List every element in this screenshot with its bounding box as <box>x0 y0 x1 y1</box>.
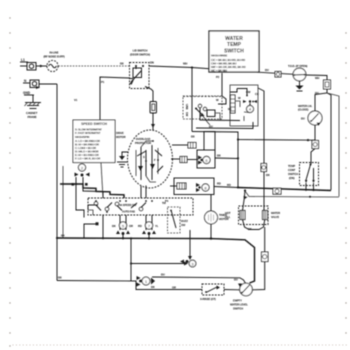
wires connector to rails <box>315 89 339 197</box>
wire contact1 to empty switch <box>152 277 246 283</box>
wires timer box to contact 7 <box>138 215 159 230</box>
svg-text:(RF NOISE SUPP): (RF NOISE SUPP) <box>43 55 64 59</box>
lid switch <box>129 49 150 89</box>
svg-text:GND: GND <box>23 91 31 95</box>
svg-text:IN-LINE: IN-LINE <box>49 51 58 55</box>
wire noise suppressor to lid switch <box>58 65 129 67</box>
water temp switch legend box <box>209 31 259 72</box>
node lid/WH junction <box>191 66 193 68</box>
terminal N <box>23 79 40 89</box>
svg-text:BK: BK <box>266 173 270 177</box>
svg-text:BK: BK <box>120 62 124 66</box>
svg-text:WH: WH <box>183 62 187 66</box>
svg-text:BU: BU <box>301 117 305 121</box>
svg-text:EMPTY: EMPTY <box>233 299 242 303</box>
svg-text:DRIVE: DRIVE <box>116 131 124 135</box>
connector on bus y190 <box>273 188 281 194</box>
wire valve right coil down <box>264 227 266 252</box>
svg-text:P2: P2 <box>216 75 220 79</box>
node 7 contact <box>142 222 156 240</box>
svg-text:BK: BK <box>112 224 116 228</box>
valve funnel bottom <box>243 220 265 232</box>
svg-text:BK: BK <box>151 285 155 289</box>
cabinet frame ground symbol <box>25 103 42 120</box>
connector on water level line <box>312 141 319 149</box>
perforation dots left column <box>9 17 10 346</box>
water temp switch contact assembly <box>183 73 259 129</box>
svg-text:WATER LEVEL: WATER LEVEL <box>230 303 248 307</box>
svg-text:TEMP: TEMP <box>227 42 242 48</box>
svg-text:S: SLOW INTERMITNT: S: SLOW INTERMITNT <box>75 128 102 132</box>
connector plug right <box>324 80 331 89</box>
bus wire y190 right <box>227 183 331 191</box>
svg-text:WASH-RINSE: WASH-RINSE <box>211 54 227 58</box>
svg-text:X-RINSE (ST): X-RINSE (ST) <box>200 297 216 301</box>
TOD thermal protector <box>288 64 308 81</box>
svg-text:CW: CW <box>246 90 251 94</box>
svg-text:F: LO = BK-R, BU-OR: F: LO = BK-R, BU-OR <box>75 157 100 161</box>
svg-text:BN: BN <box>150 61 154 65</box>
wire left rail to node1 <box>57 276 137 282</box>
svg-text:BK: BK <box>248 227 252 231</box>
svg-text:P4: P4 <box>165 199 169 203</box>
left rail wire N down <box>56 84 58 281</box>
svg-text:FRAME: FRAME <box>28 115 37 119</box>
svg-text:SW: SW <box>181 223 186 227</box>
elbow to x-rinse line <box>136 281 202 290</box>
timer switch dashed box <box>88 186 193 216</box>
svg-text:(ON): (ON) <box>289 176 295 180</box>
svg-text:BK: BK <box>228 107 232 111</box>
cold valve rail x264 <box>258 88 270 211</box>
wire L1 to noise suppressor <box>36 65 47 67</box>
wire buzzer to contact 3 <box>189 230 191 256</box>
svg-text:BK: BK <box>61 234 65 238</box>
drive motor label <box>116 131 126 139</box>
stepped bus wires to timer block <box>60 183 124 210</box>
x-rinse switch <box>200 284 224 301</box>
svg-text:RD: RD <box>217 182 221 186</box>
svg-text:CABINET: CABINET <box>26 111 38 115</box>
svg-text:E: HI = BU-R/BU-OR: E: HI = BU-R/BU-OR <box>75 153 99 157</box>
svg-text:WATER: WATER <box>271 211 280 215</box>
svg-text:TEMP: TEMP <box>288 164 295 168</box>
connector on TOD wire <box>275 72 281 78</box>
motor plug mid <box>171 157 198 163</box>
wire water level switch down <box>314 125 316 140</box>
svg-text:F: F <box>154 158 156 162</box>
motor internals <box>136 140 163 182</box>
water level switch <box>298 104 322 126</box>
svg-text:D: HI/LO = BU-R/OR: D: HI/LO = BU-R/OR <box>75 150 99 154</box>
svg-text:V1: V1 <box>74 98 78 102</box>
svg-text:WATER LVL: WATER LVL <box>298 104 313 108</box>
svg-text:MOTOR: MOTOR <box>116 135 126 139</box>
water valve right coil <box>263 211 268 220</box>
svg-text:BU: BU <box>265 68 269 72</box>
svg-text:BUZZ: BUZZ <box>181 219 188 223</box>
svg-text:CONT: CONT <box>288 168 296 172</box>
wire connector to empty switch <box>253 262 265 290</box>
terminal L1 <box>20 58 36 70</box>
svg-text:SWITCH: SWITCH <box>288 172 298 176</box>
connector block upper with contact 6 <box>197 150 238 168</box>
svg-text:SWITCH: SWITCH <box>233 307 243 311</box>
svg-text:VALVE: VALVE <box>271 215 279 219</box>
speed switch contact <box>75 173 90 180</box>
svg-text:C/C = BK-BU, BU-RD, BU-RD: C/C = BK-BU, BU-RD, BU-RD <box>211 58 245 62</box>
svg-text:WH: WH <box>315 76 319 80</box>
wires timer box to contact 5 <box>112 215 133 230</box>
svg-text:CC: CC <box>255 92 259 96</box>
svg-text:SPEED SWITCH: SPEED SWITCH <box>81 122 107 126</box>
svg-text:A: LO = BK-R/BU-OR: A: LO = BK-R/BU-OR <box>75 139 100 143</box>
node 5 contact <box>116 222 130 240</box>
in-line noise suppressor <box>43 51 64 72</box>
temp cont switch <box>288 163 319 191</box>
top wire lid switch to TOD <box>149 66 294 74</box>
motor plug upper <box>172 143 196 149</box>
svg-text:LID SWITCH: LID SWITCH <box>133 49 148 53</box>
wire lid switch to fuse <box>145 87 153 102</box>
connector block lower with contact 8 <box>174 178 238 195</box>
svg-text:(DOOR SWITCH): (DOOR SWITCH) <box>130 53 150 57</box>
drive motor ellipse <box>128 130 173 188</box>
perforation dots right column <box>345 32 346 333</box>
svg-text:L1: L1 <box>21 58 25 62</box>
wire TOD to connector <box>306 75 327 80</box>
wire x-rinse to empty switch <box>224 289 240 291</box>
svg-text:N: N <box>24 79 27 83</box>
svg-text:FILL: FILL <box>225 215 231 219</box>
empty water level switch <box>230 278 252 311</box>
svg-text:W: W <box>216 98 219 102</box>
ground under TOD <box>296 81 304 91</box>
svg-text:C: LO/HI = BU-OR: C: LO/HI = BU-OR <box>75 146 96 150</box>
connector on valve rail <box>262 252 269 262</box>
left light rail <box>62 166 64 238</box>
svg-text:UNB: UNB <box>185 104 189 110</box>
left wires into timer box <box>84 210 104 239</box>
node 1 contact <box>137 276 156 287</box>
speed switch wires down <box>72 179 104 218</box>
svg-text:B: HI = BK-R/BU-OR: B: HI = BK-R/BU-OR <box>75 143 99 147</box>
svg-text:BU: BU <box>315 91 319 95</box>
svg-text:AUTO FAB: AUTO FAB <box>122 210 135 214</box>
svg-text:F: FAST INTERMITNT: F: FAST INTERMITNT <box>75 131 101 135</box>
perforation dots bottom row <box>12 344 346 345</box>
svg-text:BK: BK <box>217 154 221 158</box>
svg-text:S: S <box>143 155 145 159</box>
svg-text:BK: BK <box>191 135 195 139</box>
svg-text:OVERLOAD: OVERLOAD <box>136 137 151 141</box>
wire fuse to motor <box>151 113 155 131</box>
wire horizontal to water level rail <box>191 132 315 142</box>
rail x238 down <box>237 140 239 188</box>
wire y196 to right rail <box>245 191 339 197</box>
timer motor <box>205 195 229 240</box>
ground left of motor <box>117 152 128 167</box>
connector block stub <box>204 132 215 151</box>
buzzer switch dashed <box>168 207 189 233</box>
svg-text:OR: OR <box>129 224 133 228</box>
svg-text:YL: YL <box>155 224 159 228</box>
ground GND <box>23 91 34 102</box>
node P1 rect corner <box>100 77 129 198</box>
wire N to left rail <box>39 83 57 85</box>
wire bus to valve left <box>243 189 248 210</box>
rail x131 bus to bottom <box>130 237 132 281</box>
motor plug lower <box>170 183 186 189</box>
fuse <box>150 102 157 114</box>
svg-text:H/C = BK-WH: H/C = BK-WH <box>211 68 227 72</box>
svg-text:SW: SW <box>185 112 189 117</box>
svg-text:RD: RD <box>227 183 231 187</box>
svg-text:C/W = BK-RD, BK-BU: C/W = BK-RD, BK-BU <box>211 62 236 66</box>
svg-text:BU: BU <box>161 273 165 277</box>
svg-text:OR: OR <box>172 286 176 290</box>
svg-text:HOT: HOT <box>225 211 231 215</box>
wire to temp cont switch <box>311 149 315 165</box>
water valve left coil <box>240 211 245 220</box>
svg-text:P1: P1 <box>101 80 105 84</box>
svg-text:WASH/SPIN: WASH/SPIN <box>75 135 89 139</box>
svg-text:W: W <box>238 96 241 100</box>
svg-text:RD: RD <box>138 224 142 228</box>
speed switch legend box <box>73 120 115 163</box>
wire y264 <box>130 262 188 266</box>
main bottom bus <box>56 234 255 284</box>
unbalance switch <box>183 96 222 129</box>
svg-text:T.O.D. (IF OPEN): T.O.D. (IF OPEN) <box>288 64 308 68</box>
svg-text:(CLOSE): (CLOSE) <box>298 108 309 112</box>
water valve dashed box <box>225 206 280 225</box>
svg-text:BK: BK <box>58 276 62 280</box>
node 2 speed switch <box>78 164 85 171</box>
node 3 contact with circle 2 <box>180 256 196 267</box>
labels on x-rinse line <box>151 285 176 290</box>
rail WH from lid switch down <box>191 68 193 132</box>
